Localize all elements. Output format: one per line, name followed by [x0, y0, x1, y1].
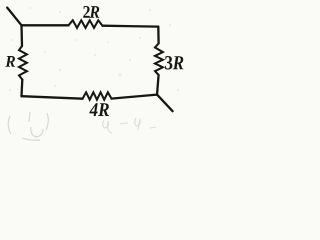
wire bottom-left corner up to R: [20, 80, 23, 97]
wire 3R to bottom-right corner: [157, 75, 159, 95]
faint scan ghost marks bottom-right: [103, 118, 156, 133]
terminal lead top-left: [7, 8, 21, 26]
faint scan ghost marks bottom-left: [8, 112, 48, 140]
wire top-left to 2R: [22, 24, 69, 26]
resistor 3R: [155, 43, 163, 75]
paper background: [0, 0, 189, 144]
label 2R: [83, 6, 99, 18]
resistor 2R: [69, 20, 103, 28]
wire bottom-right corner to 4R: [112, 95, 158, 99]
wire top-right corner down to 3R: [157, 27, 160, 44]
terminal lead bottom-right: [157, 95, 173, 112]
label 3R: [165, 56, 183, 69]
wire R to top-left corner: [20, 25, 23, 46]
wire 2R to top-right corner: [103, 25, 159, 28]
label R: [5, 56, 15, 67]
label 4R: [89, 103, 109, 116]
wire 4R to bottom-left corner: [22, 96, 83, 99]
resistor 4R: [83, 92, 112, 99]
faint interior speckles: [9, 7, 179, 91]
resistor R: [19, 46, 27, 80]
